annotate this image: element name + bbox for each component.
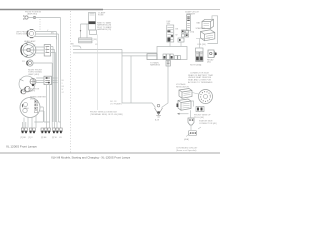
long harness wire (lower) xyxy=(122,55,157,57)
svg-text:V: V xyxy=(62,83,64,85)
svg-text:ACCESS TO TERMINALS: ACCESS TO TERMINALS xyxy=(188,81,213,84)
svg-text:FUSE: FUSE xyxy=(98,15,104,17)
label above speedometer xyxy=(30,96,46,100)
svg-text:REGULATOR: REGULATOR xyxy=(176,85,189,88)
right turn connector xyxy=(44,76,51,84)
wire from right section down to ground xyxy=(162,60,169,108)
tiny wire labels right of turn signal xyxy=(47,30,54,34)
node on position lamp wire xyxy=(33,16,35,18)
svg-text:PLUG [46]: PLUG [46] xyxy=(194,117,204,119)
svg-text:PO: PO xyxy=(22,61,25,63)
connector grid top right xyxy=(182,30,189,37)
headlamp internal spokes xyxy=(30,45,35,55)
label above terminal strip xyxy=(167,21,171,25)
svg-text:BK: BK xyxy=(176,28,179,30)
harness hook at separator xyxy=(73,46,82,49)
ignition coil twin towers xyxy=(196,52,203,62)
regulator connector pins xyxy=(196,107,204,112)
top border rule (left dark segment) xyxy=(0,9,103,11)
svg-text:[2] V: [2] V xyxy=(29,137,34,139)
labels beside terminal block xyxy=(94,39,99,46)
note paragraph (right side, five tiny lines) xyxy=(188,71,214,84)
wire: vertical drop to ground run xyxy=(122,49,152,103)
right front turn signal lamp assembly xyxy=(19,76,36,92)
svg-text:LAMP (HDI): LAMP (HDI) xyxy=(27,13,38,16)
wires: headlamp to connector and onward xyxy=(36,47,56,54)
accessory connector under fuse xyxy=(90,30,97,35)
wire from regulator to plug xyxy=(191,101,194,130)
regulator lower box (3D) xyxy=(177,99,192,110)
ignition coil label box xyxy=(196,48,204,52)
svg-text:LAMP (HDI): LAMP (HDI) xyxy=(28,73,39,76)
svg-text:GY: GY xyxy=(59,137,63,139)
wire: strip to switch housing xyxy=(169,42,171,47)
svg-text:BK: BK xyxy=(71,43,74,45)
svg-text:CONNECTOR [46]: CONNECTOR [46] xyxy=(199,123,217,125)
label: front position lamp (two tiny lines) xyxy=(25,12,42,16)
label: left front turn signal xyxy=(16,31,31,35)
label block: turn signal assembly (three tiny lines) xyxy=(28,69,43,75)
svg-text:[30]: [30] xyxy=(207,62,211,64)
fuse F1 body xyxy=(89,13,96,31)
wires from speedometer down xyxy=(24,107,44,125)
svg-text:GY: GY xyxy=(95,44,99,46)
connector pair C1 xyxy=(21,128,28,139)
wire: drop from fuse area xyxy=(80,24,89,38)
svg-text:W: W xyxy=(62,89,64,91)
bottom right note (two tiny lines) xyxy=(176,147,198,151)
ignition switch terminal grid xyxy=(163,54,180,60)
wire: regulator to stator xyxy=(192,93,199,95)
small box above switch housing xyxy=(178,38,184,47)
bottom border rule xyxy=(0,152,220,154)
inline connector on ground wire xyxy=(166,61,170,67)
labels right of fuse bottom (four tiny lines) xyxy=(97,21,112,31)
small box left of switch housing xyxy=(147,54,157,60)
svg-text:BK: BK xyxy=(62,80,65,82)
top border rule (right light segment) xyxy=(103,9,220,11)
label: 15 amp fuse xyxy=(98,11,106,16)
svg-text:COIL [83]: COIL [83] xyxy=(197,44,206,46)
stator plug end (small 3-pin connector) xyxy=(184,127,201,141)
wires: right turn lamp to connector xyxy=(35,78,57,83)
svg-text:LAMPS: LAMPS xyxy=(28,90,36,93)
arrow pointer to regulator xyxy=(179,113,189,115)
svg-text:[2] BE: [2] BE xyxy=(41,137,47,139)
ignition switch housing (large box) xyxy=(157,47,187,60)
label: voltage regulator xyxy=(176,83,189,88)
connector pair C3 xyxy=(41,128,50,139)
svg-text:[46A]: [46A] xyxy=(184,138,189,141)
left front turn signal lamp xyxy=(27,29,36,37)
voltage regulator VR1 (3D box) xyxy=(179,89,192,99)
svg-text:GY: GY xyxy=(62,92,65,94)
svg-text:BREAKER: BREAKER xyxy=(187,12,196,15)
label under horn xyxy=(207,58,214,63)
svg-text:BN: BN xyxy=(62,86,65,88)
svg-text:[2] W: [2] W xyxy=(52,137,57,139)
starter motor (3D box) xyxy=(201,30,215,41)
connector pair C4 xyxy=(52,128,59,139)
long harness wire (middle) xyxy=(73,52,157,54)
svg-text:(TERMINAL SIDE) OF PLUG [38B]: (TERMINAL SIDE) OF PLUG [38B] xyxy=(90,113,123,116)
headlamp xyxy=(21,43,36,58)
label: 30 amp circuit breaker xyxy=(185,10,200,15)
ignition switch terminal strip xyxy=(167,25,174,42)
side labels of terminal strip xyxy=(176,28,179,36)
connector row feeder jogs xyxy=(23,122,61,128)
alternator stator (dotted ring) xyxy=(199,90,213,104)
svg-text:(Same or at Sprocket): (Same or at Sprocket) xyxy=(176,149,197,152)
faint vertical harness line center xyxy=(97,35,99,111)
svg-text:STARTER: STARTER xyxy=(196,27,206,30)
tiny wire-label ticks right of bus xyxy=(62,80,65,94)
connector pair C5 xyxy=(59,128,63,139)
wires: turn signal to bus xyxy=(35,32,59,40)
battery positive wire loop xyxy=(208,16,218,44)
svg-text:XLH All Models, Starting and C: XLH All Models, Starting and Charging - … xyxy=(51,155,131,159)
battery BT1 xyxy=(202,19,214,28)
svg-text:BAT: BAT xyxy=(197,21,202,24)
svg-text:[38]: [38] xyxy=(94,39,98,41)
svg-text:SW: SW xyxy=(167,23,170,25)
svg-text:A 28: A 28 xyxy=(155,119,160,122)
svg-text:HARNESS [29]: HARNESS [29] xyxy=(97,28,112,31)
wire: second vertical drop xyxy=(130,56,132,103)
long harness wire (upper) xyxy=(73,48,122,50)
svg-text:HARNESS: HARNESS xyxy=(150,64,161,67)
main ground G1 xyxy=(152,103,163,122)
front marker lamp xyxy=(27,60,33,66)
position lamp xyxy=(23,16,28,19)
svg-text:TURN SIGNAL: TURN SIGNAL xyxy=(16,33,31,36)
svg-text:[33]: [33] xyxy=(191,31,195,33)
headlamp connector [4-place] xyxy=(44,45,50,56)
section separator dashed line xyxy=(70,11,72,153)
tiny label at harness start xyxy=(71,43,74,45)
label under regulator connector xyxy=(194,115,211,119)
horn component xyxy=(208,50,217,58)
label: ground wire (left of drop) xyxy=(110,101,122,105)
plug symbol lower xyxy=(188,118,194,125)
terminal hatch block under fuse xyxy=(79,38,93,43)
wire: position lamp to harness xyxy=(28,17,61,19)
dashed stub wire below position lamp xyxy=(39,19,41,30)
svg-text:MPH: MPH xyxy=(24,108,29,110)
svg-text:W: W xyxy=(176,34,178,36)
circuit breaker CB1 xyxy=(187,15,191,31)
speedometer xyxy=(20,98,40,118)
vertical dotted tick near separator bottom xyxy=(0,0,1,1)
svg-text:XL 1200S Front Lamps: XL 1200S Front Lamps xyxy=(6,144,37,148)
note text center (two tiny lines) xyxy=(90,110,123,115)
svg-text:HEADLAMP: HEADLAMP xyxy=(24,40,36,43)
label: indicator lamps (two tiny lines) xyxy=(28,87,40,92)
svg-text:NOTE [33A]: NOTE [33A] xyxy=(190,63,202,66)
connector pair C2 xyxy=(29,128,36,139)
wire: marker lamp to bus xyxy=(33,62,52,64)
label right of plug symbol xyxy=(199,119,217,124)
vertical harness bus wires xyxy=(47,18,61,123)
wire stub above coil xyxy=(196,39,210,49)
indicator lamp xyxy=(21,89,26,94)
svg-text:(TO FRAME): (TO FRAME) xyxy=(110,103,122,106)
svg-text:[2] BK: [2] BK xyxy=(21,137,27,139)
label under small box xyxy=(150,61,161,66)
